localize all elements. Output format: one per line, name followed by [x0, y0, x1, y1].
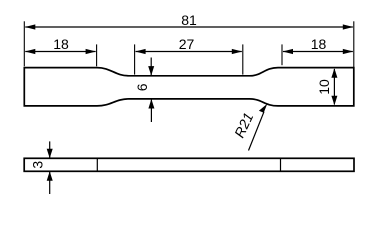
svg-text:10: 10 [316, 79, 332, 95]
svg-text:18: 18 [53, 36, 69, 52]
svg-text:3: 3 [29, 161, 45, 169]
svg-text:18: 18 [311, 36, 327, 52]
svg-text:81: 81 [181, 12, 197, 28]
svg-text:6: 6 [134, 83, 150, 91]
svg-text:27: 27 [179, 36, 195, 52]
